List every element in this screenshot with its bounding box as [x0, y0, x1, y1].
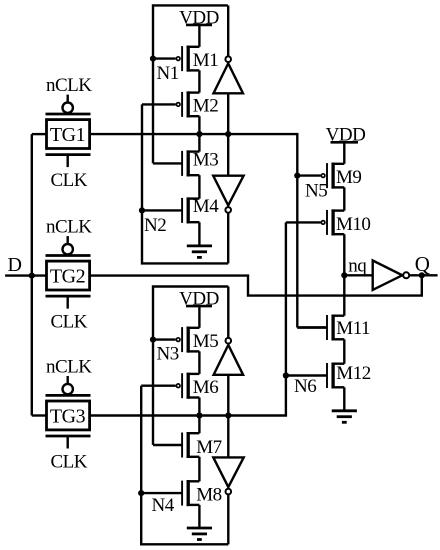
transistor M12 [331, 363, 344, 365]
transistor M4 [187, 197, 200, 199]
wire M3 drain to node [198, 134, 200, 152]
svg-text:CLK: CLK [50, 170, 87, 191]
wire TG3 input [32, 414, 47, 416]
transistor M8 [187, 480, 200, 482]
svg-text:N3: N3 [157, 344, 179, 365]
wire left clock bus [31, 134, 33, 415]
svg-text:nCLK: nCLK [46, 217, 92, 238]
svg-text:M12: M12 [336, 363, 370, 384]
svg-text:N2: N2 [144, 215, 166, 236]
transistor M2 [187, 91, 200, 93]
wire nCLK stub TG1 [66, 95, 68, 103]
transmission gate TG3 [47, 401, 90, 430]
transistor M1 [187, 46, 200, 48]
clock bubble TG2 [62, 244, 72, 254]
wire nCLK stub TG2 [66, 236, 68, 244]
wire TG2 output feedback to Q [90, 275, 422, 295]
node N1 [150, 56, 156, 62]
node M6/M7 junction [196, 412, 202, 418]
wire TG1 input [32, 133, 47, 135]
svg-text:nq: nq [348, 256, 367, 277]
gate bar bottom TG1 [46, 153, 91, 156]
wire U2 output to N2 [227, 213, 229, 263]
svg-text:nCLK: nCLK [46, 357, 92, 378]
transmission gate TG2 [47, 261, 90, 290]
ground right block [343, 387, 345, 411]
inverter U2 [213, 176, 243, 206]
VDD rail right [331, 141, 359, 144]
transistor M7 [187, 432, 200, 434]
svg-text:N6: N6 [294, 376, 316, 397]
transistor M3 [187, 150, 200, 152]
node nq [341, 272, 347, 278]
wire M1-M2 [198, 70, 200, 92]
svg-text:M2: M2 [193, 96, 218, 117]
ground bottom block [198, 505, 200, 528]
transistor M10 [331, 209, 344, 211]
node D junction [29, 273, 35, 279]
wire M3-M4 [198, 175, 200, 198]
wire nCLK stub TG3 [66, 376, 68, 384]
transmission gate TG1 [47, 120, 90, 149]
svg-text:M3: M3 [193, 149, 218, 170]
svg-text:Q: Q [415, 252, 430, 276]
inverter U3 [214, 345, 244, 375]
inverter U5 output [373, 261, 403, 290]
wire N2 riser [142, 104, 228, 263]
wire Q output [410, 274, 438, 276]
wire U4 output to N4 [227, 495, 229, 545]
svg-text:M6: M6 [193, 377, 218, 398]
bubble inverter U1 [225, 56, 231, 62]
transistor M6 [187, 373, 200, 375]
svg-text:N4: N4 [152, 495, 175, 516]
svg-text:M1: M1 [193, 50, 218, 71]
svg-text:D: D [8, 254, 22, 276]
gate bar top TG3 [46, 394, 91, 397]
svg-text:CLK: CLK [50, 452, 87, 473]
inverter U1 [214, 63, 244, 93]
wire VDD to M1 drain [198, 25, 200, 47]
wire inverter U1 input [227, 93, 229, 134]
wire TG1 output to N5/M11 [90, 134, 298, 327]
node N3 [150, 337, 156, 343]
wire M7-M8 [198, 457, 200, 482]
gate bar bottom TG3 [46, 435, 91, 438]
bubble inverter U3 [226, 338, 232, 344]
svg-text:M5: M5 [193, 331, 218, 352]
svg-text:TG1: TG1 [50, 124, 85, 146]
node inverter input junction bottom [225, 412, 231, 418]
gate bar top TG1 [46, 113, 91, 116]
svg-text:M10: M10 [336, 214, 370, 235]
svg-text:M9: M9 [336, 167, 361, 188]
node Q junction [419, 272, 425, 278]
wire CLK stub TG3 [66, 436, 68, 449]
gate bar bottom TG2 [46, 295, 91, 298]
wire TG3 output to N6 [90, 222, 286, 415]
inverter U4 [213, 457, 243, 487]
node N6 [283, 372, 289, 378]
transistor M9 [331, 163, 344, 165]
node N5 [294, 173, 300, 179]
svg-text:M8: M8 [196, 485, 221, 506]
wire U1 output to top border [227, 5, 229, 56]
wire M7 drain to node [198, 416, 200, 434]
transistor M5 [187, 327, 200, 329]
bubble inverter U5 [403, 272, 409, 278]
wire D input [5, 274, 46, 276]
wire M2 source to node [198, 116, 200, 134]
wire nq to inverter U5 [344, 274, 372, 276]
VDD rail bottom block [186, 305, 212, 308]
VDD rail top block [186, 24, 212, 27]
wire nq to M11 [343, 275, 345, 315]
ground top block [198, 222, 200, 246]
wire feedback bottom-block border [153, 287, 228, 445]
svg-text:nCLK: nCLK [46, 75, 92, 96]
svg-text:TG2: TG2 [50, 265, 85, 287]
wire M9-M10 [343, 187, 345, 210]
wire inverter U3 input [227, 375, 229, 416]
svg-text:M4: M4 [193, 196, 219, 217]
wire M5-M6 [198, 351, 200, 374]
svg-text:M11: M11 [336, 318, 370, 339]
gate bar top TG2 [46, 254, 91, 257]
wire CLK stub TG2 [66, 296, 68, 309]
wire M10 to nq [343, 234, 345, 275]
wire M11 gate lead [297, 326, 327, 328]
transistor M11 [331, 315, 344, 317]
bubble inverter U4 [226, 489, 232, 495]
wire N4 riser [141, 386, 228, 545]
node inverter input junction top [225, 131, 231, 137]
bubble inverter U2 [225, 207, 231, 213]
wire CLK stub TG1 [66, 155, 68, 168]
wire VDD to M9 drain [343, 142, 345, 164]
wire inverter U4 input [227, 416, 229, 458]
svg-text:CLK: CLK [50, 312, 87, 333]
wire inverter U2 input [227, 134, 229, 176]
wire U3 output to border [227, 287, 229, 338]
svg-text:N5: N5 [305, 180, 327, 201]
node N2 [139, 207, 145, 213]
svg-text:M7: M7 [196, 437, 221, 458]
svg-text:TG3: TG3 [50, 405, 86, 427]
wire feedback top border [153, 5, 228, 163]
clock bubble TG1 [62, 103, 72, 113]
svg-text:N1: N1 [157, 63, 179, 84]
wire M6 source to node [198, 398, 200, 416]
node N4 [138, 490, 144, 496]
node M2/M3 junction [196, 131, 202, 137]
clock bubble TG3 [62, 384, 72, 394]
wire VDD to M5 drain [198, 306, 200, 328]
wire M11-M12 [343, 339, 345, 363]
